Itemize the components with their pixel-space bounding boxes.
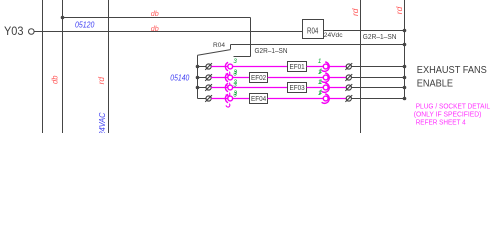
wire row1 black right: [351, 66, 404, 68]
bus rail 2: [62, 0, 64, 133]
connector curl row3 left: [226, 93, 230, 96]
svg-text:R04: R04: [213, 42, 225, 49]
svg-text:rd: rd: [351, 8, 360, 16]
fan row 1: [196, 58, 407, 78]
svg-text:1: 1: [318, 58, 321, 65]
node rail N1 right collector: [404, 0, 406, 99]
junction dot row2 left rail: [196, 76, 200, 80]
svg-text:G2R–1–SN: G2R–1–SN: [255, 46, 288, 55]
wire coil R04 to node rail: [324, 30, 405, 32]
svg-text:REFER SHEET 4: REFER SHEET 4: [416, 117, 466, 126]
wire row3 black right: [351, 87, 404, 89]
wire line A vertical drop: [250, 18, 252, 57]
fan row 3: [196, 79, 407, 99]
connector socket row2 right: [322, 73, 330, 82]
connector pin row3 left: [228, 85, 233, 90]
wire row4 black right: [351, 98, 404, 100]
terminal slash-circle row4 right: [346, 96, 351, 101]
wire contact output to node rail: [231, 44, 405, 46]
device box EF01: [288, 62, 307, 72]
contact R04 moving arm: [198, 50, 231, 56]
svg-text:05140: 05140: [170, 73, 189, 82]
terminal slash-circle row4 left: [206, 96, 211, 101]
device box EF03: [288, 83, 307, 93]
connector socket row3 left: [225, 83, 228, 91]
svg-text:db: db: [51, 75, 60, 84]
wire row4 left stub: [198, 98, 206, 100]
terminal slash-circle row1 right: [346, 64, 351, 69]
svg-text:EF04: EF04: [251, 94, 266, 103]
terminal slash-circle row1 left: [206, 64, 211, 69]
svg-text:05120: 05120: [75, 20, 95, 29]
svg-text:ENABLE: ENABLE: [417, 78, 453, 89]
wire row3 left stub: [198, 87, 206, 89]
terminal Y03 circle: [29, 29, 35, 35]
connector pin row1 right: [323, 64, 328, 69]
wire row2 magenta left: [211, 77, 249, 79]
junction dot row1 left rail: [196, 65, 200, 69]
svg-text:db: db: [151, 9, 159, 18]
bus rail 4: [360, 0, 362, 133]
junction dot row2 right rail: [403, 76, 407, 80]
terminal slash-circle row2 left: [206, 75, 211, 80]
connector pin row2 right: [323, 75, 328, 80]
junction dot contact wire at node rail: [403, 43, 407, 47]
wire row3 magenta left: [211, 87, 287, 89]
wire row2 black right: [351, 77, 404, 79]
wire row1 magenta right: [307, 66, 347, 68]
svg-text:3: 3: [233, 90, 237, 97]
connector socket row3 right: [322, 83, 330, 92]
junction dot line A start: [61, 16, 65, 20]
svg-text:1: 1: [318, 79, 321, 86]
contact R04 bracket stub: [234, 56, 251, 58]
wire row3 magenta right: [307, 87, 347, 89]
svg-text:EF01: EF01: [290, 62, 305, 71]
connector socket row1 left: [225, 62, 228, 70]
svg-text:Y03: Y03: [4, 26, 24, 38]
svg-text:3: 3: [233, 69, 237, 76]
connector pin row4 left: [228, 96, 233, 101]
svg-text:1: 1: [318, 69, 321, 76]
terminal slash-circle row3 left: [206, 85, 211, 90]
svg-text:3: 3: [233, 58, 237, 65]
wire row1 left stub: [198, 66, 206, 68]
connector socket row1 right: [322, 62, 330, 71]
svg-text:rd: rd: [97, 76, 106, 84]
bus rail 3: [108, 0, 110, 133]
svg-text:EXHAUST FANS: EXHAUST FANS: [417, 65, 487, 76]
svg-text:24VAC: 24VAC: [98, 112, 107, 133]
svg-text:R04: R04: [307, 26, 319, 35]
svg-text:G2R–1–SN: G2R–1–SN: [363, 32, 397, 41]
terminal slash-circle row2 right: [346, 75, 351, 80]
bus rail 1: [42, 0, 44, 133]
connector socket row4 right: [322, 94, 330, 103]
connector pin row1 left: [228, 64, 233, 69]
svg-text:EF03: EF03: [290, 83, 305, 92]
connector pin row2 left: [228, 75, 233, 80]
svg-text:db: db: [151, 24, 159, 33]
junction dot row3 left rail: [196, 86, 200, 90]
connector socket row2 left: [225, 73, 228, 81]
junction dot row1 right rail: [403, 65, 407, 69]
wire Y03 to coil R04: [34, 31, 302, 33]
wire row2 magenta right: [268, 77, 347, 79]
wire row1 magenta left: [211, 66, 287, 68]
wire row2 left stub: [198, 77, 206, 79]
junction dot row4 right rail: [403, 97, 407, 101]
ladder left rail: [197, 55, 199, 98]
fan row 4: [198, 90, 407, 107]
coil box R04: [303, 20, 324, 39]
device box EF04: [250, 94, 268, 104]
svg-text:EF02: EF02: [251, 73, 266, 82]
device box EF02: [250, 73, 268, 83]
fan row 2: [196, 69, 407, 89]
connector curl row2 left: [226, 83, 230, 86]
svg-text:1: 1: [318, 90, 321, 97]
connector pin row4 right: [323, 96, 328, 101]
connector socket row4 left: [225, 94, 228, 102]
junction dot node rail top: [403, 29, 407, 33]
connector curl row1 left: [226, 72, 230, 75]
svg-text:rd: rd: [395, 6, 404, 14]
wire line A horizontal: [63, 17, 251, 19]
contact R04 fixed tick: [230, 45, 232, 50]
svg-text:3: 3: [233, 79, 237, 86]
wire row4 magenta right: [268, 98, 347, 100]
wire row4 magenta left: [211, 98, 249, 100]
connector curl row4 left: [226, 104, 230, 107]
terminal slash-circle row3 right: [346, 85, 351, 90]
connector pin row3 right: [323, 85, 328, 90]
svg-text:24Vdc: 24Vdc: [324, 32, 343, 39]
junction dot row3 right rail: [403, 86, 407, 90]
